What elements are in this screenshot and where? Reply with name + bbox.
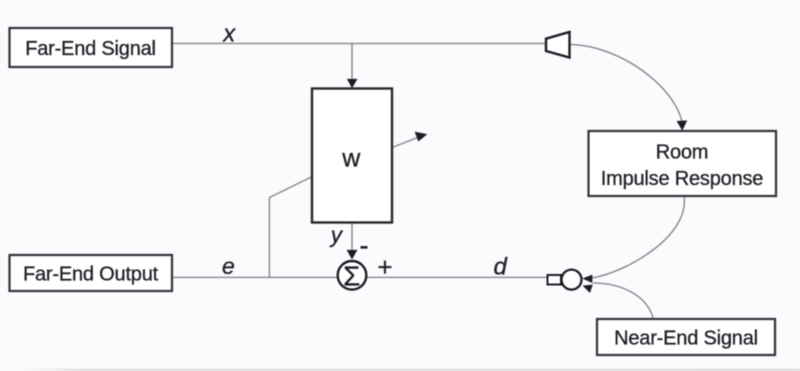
adaptation arrow out of w box: [393, 137, 420, 147]
svg-text:Impulse Response: Impulse Response: [601, 168, 764, 190]
arrowhead of adaptation arrow: [415, 132, 428, 142]
svg-text:y: y: [329, 222, 344, 247]
microphone icon body: [548, 275, 562, 285]
curve Room Impulse Response to microphone: [592, 197, 684, 279]
box Far-End Output: [10, 255, 173, 291]
svg-text:Near-End Signal: Near-End Signal: [614, 327, 758, 349]
svg-text:d: d: [494, 254, 508, 281]
arrowhead into w box: [347, 79, 358, 88]
box Far-End Signal: [10, 28, 173, 67]
svg-text:-: -: [359, 230, 368, 261]
wire y: w box to sum: [351, 222, 353, 251]
svg-text:Far-End Signal: Far-End Signal: [25, 38, 156, 60]
curve speaker to Room Impulse Response: [570, 45, 682, 123]
curve Near-End Signal to microphone: [593, 283, 653, 319]
box Room Impulse Response: [589, 131, 777, 196]
speaker icon: [546, 32, 570, 58]
arrowhead into microphone upper: [582, 275, 592, 283]
wire x: Far-End Signal to speaker: [172, 43, 547, 45]
summation node: [338, 261, 367, 290]
microphone icon head: [562, 270, 582, 290]
box w (adaptive filter): [312, 89, 392, 223]
wire branch down to w box: [351, 44, 353, 81]
arrowhead into sum: [347, 250, 358, 260]
bottom screen edge: [22, 369, 800, 371]
wire d: sum to microphone: [367, 276, 547, 278]
svg-text:+: +: [377, 252, 392, 282]
svg-text:x: x: [222, 21, 236, 48]
arrowhead into Room Impulse Response: [677, 120, 688, 130]
svg-text:e: e: [222, 253, 235, 279]
svg-text:w: w: [341, 144, 361, 172]
arrowhead into microphone lower: [583, 285, 593, 293]
svg-text:Room: Room: [656, 141, 709, 163]
box Near-End Signal: [597, 319, 775, 355]
svg-text:Σ: Σ: [343, 261, 360, 292]
wire e: Far-End Output to sum: [172, 276, 337, 278]
adaptation wire from e up to w box: [269, 177, 311, 278]
svg-text:Far-End Output: Far-End Output: [23, 264, 159, 286]
